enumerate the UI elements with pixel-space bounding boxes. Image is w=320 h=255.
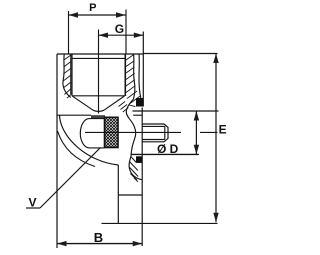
dimension P left arrow [69, 12, 79, 17]
svg-text:B: B [94, 230, 103, 245]
port thread left band inner line [70, 54, 72, 94]
body top face [57, 53, 143, 55]
dimension E bottom arrow [213, 213, 218, 223]
main horizontal centerline [85, 131, 218, 133]
port bore left wall [71, 54, 73, 96]
thread runout connector [129, 105, 136, 107]
lower bore left wall [117, 165, 119, 223]
dimension OD top arrow [194, 111, 199, 121]
dimension OD bottom extension line [131, 153, 199, 155]
valve seal crosshatch box V [105, 117, 119, 147]
seal black block under right port wall [136, 98, 143, 107]
dimension P line [69, 14, 126, 16]
kidney seal black dot [136, 156, 142, 163]
port thread left hatching [63, 55, 72, 98]
side stub thread inner top [142, 125, 165, 127]
dimension B right arrow [133, 241, 143, 246]
port bore right wall [124, 54, 126, 96]
dimension OD top extension line [133, 110, 219, 112]
dimension E line [215, 54, 217, 223]
side stub thread end line [164, 126, 166, 139]
inner cavity chamfer arc [58, 131, 96, 167]
dimension OD line [195, 111, 197, 154]
port thread right hatching [126, 54, 140, 103]
body left outer edge and B left extension [56, 54, 58, 248]
valve seat wedge hatching [119, 102, 129, 113]
right outer groove curve and lower seal kidney boundary [126, 99, 142, 180]
dimension OD bottom arrow [194, 145, 199, 155]
big body cavity arc [60, 115, 119, 165]
port center bore line [98, 30, 100, 114]
port bottom cone left slope [72, 96, 93, 110]
dimension G line [99, 34, 144, 36]
port thread right band inner wavy line [134, 54, 135, 99]
dimension B line [57, 243, 142, 245]
side stub thread inner bottom [142, 139, 165, 141]
dimension P left extension line [68, 11, 70, 54]
lower bore step rung [118, 194, 142, 196]
port bore bottom shoulder [72, 95, 125, 97]
port insert top line [72, 57, 125, 59]
waist line left [57, 114, 91, 116]
port thread left band outer wavy line [63, 54, 71, 98]
side stub outline [142, 124, 168, 142]
dimension G left arrow [99, 33, 109, 38]
lower seal kidney hatching [129, 157, 138, 182]
extension line at thread bore x=126 [125, 10, 127, 54]
right flange face and B right extension [141, 108, 143, 247]
body bottom line and E bottom extension [102, 222, 218, 224]
valve poppet dome [80, 119, 104, 148]
label V underline [26, 207, 40, 209]
svg-text:E: E [219, 122, 227, 136]
valve seat thick gray band [91, 115, 105, 119]
label V leader line [40, 148, 101, 209]
dimension P right arrow [116, 12, 126, 17]
dimension G right arrow [134, 33, 144, 38]
body right port wall and P right extension [142, 32, 144, 107]
port bottom cone bottom arc [93, 110, 104, 111]
port bottom cone right slope [104, 96, 125, 110]
dimension E top arrow [213, 54, 218, 64]
waist line right of groove [133, 114, 142, 116]
port thread right band outer line [139, 54, 143, 104]
svg-text:G: G [115, 22, 124, 36]
dimension E top extension line [143, 53, 217, 55]
dimension B left arrow [57, 241, 67, 246]
svg-text:P: P [89, 2, 96, 14]
